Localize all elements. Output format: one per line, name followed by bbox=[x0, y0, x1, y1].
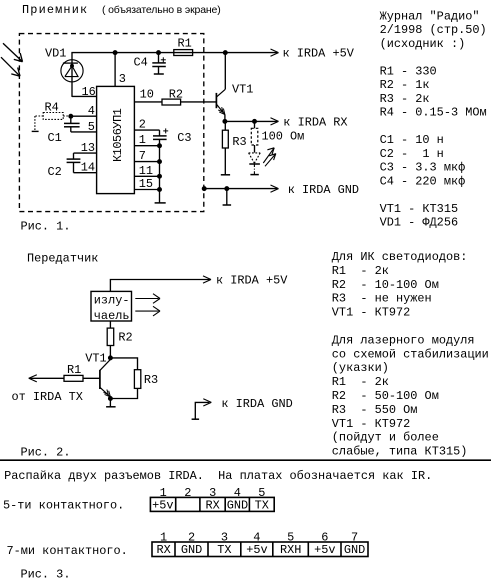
svg-text:чаель: чаель bbox=[94, 309, 130, 323]
svg-text:VD1 - ФД256: VD1 - ФД256 bbox=[380, 216, 459, 230]
svg-text:R1: R1 bbox=[178, 36, 192, 50]
5-pin connector table bbox=[150, 497, 274, 511]
svg-text:RX: RX bbox=[206, 498, 220, 512]
svg-text:1: 1 bbox=[139, 133, 146, 147]
wire: emitter to IRDA RX bbox=[225, 120, 277, 122]
svg-text:R3 - 2к: R3 - 2к bbox=[380, 92, 430, 106]
node: pin1 junction bbox=[158, 144, 162, 148]
resistor 100 Ом (dashed, optional) bbox=[251, 121, 304, 152]
photodiode VD1 bbox=[45, 46, 83, 97]
svg-text:Для ИК светодиодов:: Для ИК светодиодов: bbox=[332, 250, 468, 264]
svg-text:7: 7 bbox=[139, 149, 146, 163]
pin 13 bbox=[74, 141, 97, 155]
svg-text:+5v: +5v bbox=[152, 498, 173, 512]
7-pin labels bbox=[157, 543, 366, 557]
ground (bus) bbox=[223, 204, 232, 206]
wire: R3 bottom to emitter bbox=[110, 388, 137, 398]
svg-text:к IRDA +5V: к IRDA +5V bbox=[216, 274, 288, 288]
svg-text:Распайка двух разъемов IRDA.: Распайка двух разъемов IRDA. На платах о… bbox=[4, 469, 432, 483]
svg-text:C3 - 3.3 мкф: C3 - 3.3 мкф bbox=[380, 161, 466, 175]
node: pin11 junction bbox=[158, 175, 162, 179]
svg-text:слабые, типа КТ315): слабые, типа КТ315) bbox=[332, 445, 468, 459]
svg-text:7-ми контактного.: 7-ми контактного. bbox=[7, 544, 128, 558]
svg-text:C4 - 220 мкф: C4 - 220 мкф bbox=[380, 174, 466, 188]
svg-text:14: 14 bbox=[81, 161, 95, 175]
node: emitter junction (transmitter) bbox=[109, 397, 113, 401]
resistor R1 bbox=[174, 36, 193, 55]
arrow to IRDA +5V bbox=[271, 47, 355, 61]
7-pin numbers bbox=[160, 530, 358, 544]
pin 14 bbox=[74, 161, 97, 175]
svg-text:2/1998 (стр.50): 2/1998 (стр.50) bbox=[380, 23, 487, 37]
journal reference text block bbox=[380, 9, 487, 229]
svg-text:Рис. 1.: Рис. 1. bbox=[21, 219, 71, 233]
ground (IC bus) bbox=[155, 202, 166, 204]
svg-text:C2: C2 bbox=[48, 165, 62, 179]
svg-text:4: 4 bbox=[88, 104, 95, 118]
svg-text:к IRDA GND: к IRDA GND bbox=[221, 397, 292, 411]
svg-text:R3 - 550 Ом: R3 - 550 Ом bbox=[332, 403, 418, 417]
wire: collector to R3 bbox=[110, 358, 137, 370]
svg-text:100 Ом: 100 Ом bbox=[262, 130, 305, 144]
wire: +5V top rail bbox=[71, 52, 277, 54]
svg-text:16: 16 bbox=[82, 85, 96, 99]
svg-text:GND: GND bbox=[344, 543, 365, 557]
capacitor C1 bbox=[48, 116, 80, 145]
LED light output arrow 1 bbox=[263, 148, 274, 163]
capacitor C2 bbox=[48, 153, 81, 179]
svg-text:R3 - не нужен: R3 - не нужен bbox=[332, 292, 432, 306]
7-pin connector table bbox=[152, 542, 368, 557]
svg-text:3: 3 bbox=[119, 72, 126, 86]
svg-text:+5v: +5v bbox=[314, 543, 335, 557]
svg-text:(указки): (указки) bbox=[332, 361, 389, 375]
node: pin7 junction bbox=[158, 160, 162, 164]
node: shield junction bbox=[202, 187, 206, 191]
svg-text:R2 - 50-100 Ом: R2 - 50-100 Ом bbox=[332, 389, 439, 403]
capacitor C3 bbox=[153, 128, 192, 145]
svg-text:от IRDA TX: от IRDA TX bbox=[12, 390, 83, 404]
node: LED branch junction bbox=[253, 120, 257, 124]
node: C4 junction bbox=[157, 51, 161, 55]
svg-text:Для лазерного модуля: Для лазерного модуля bbox=[332, 333, 475, 347]
svg-text:VT1 - КТ315: VT1 - КТ315 bbox=[380, 202, 459, 216]
svg-text:Рис. 3.: Рис. 3. bbox=[21, 567, 71, 581]
svg-text:5-ти контактного.: 5-ти контактного. bbox=[3, 499, 124, 513]
svg-text:11: 11 bbox=[139, 164, 153, 178]
svg-text:2: 2 bbox=[139, 118, 146, 132]
svg-text:R1 - 330: R1 - 330 bbox=[380, 64, 437, 78]
pin 11 bbox=[134, 164, 159, 178]
node: pin3 junction bbox=[113, 51, 117, 55]
ground (transmitter GND symbol) bbox=[192, 418, 200, 420]
svg-text:К1056УП1: К1056УП1 bbox=[111, 108, 125, 162]
ground (transmitter emitter) bbox=[106, 406, 116, 408]
svg-text:13: 13 bbox=[81, 141, 95, 155]
svg-text:15: 15 bbox=[139, 177, 153, 191]
svg-text:VT1: VT1 bbox=[232, 83, 253, 97]
IR light input arrow 2 bbox=[1, 57, 20, 76]
svg-text:R4 - 0.15-3 МОм: R4 - 0.15-3 МОм bbox=[380, 106, 487, 120]
pin 2 bbox=[134, 118, 159, 132]
svg-text:VD1: VD1 bbox=[45, 46, 66, 60]
svg-text:Журнал "Радио": Журнал "Радио" bbox=[380, 9, 480, 23]
svg-text:VT1 - КТ972: VT1 - КТ972 bbox=[332, 417, 411, 431]
node: gnd stub junction bbox=[225, 187, 229, 191]
wire: ground bus of pins 1,7,11,15 bbox=[159, 139, 161, 203]
pin 3 bbox=[115, 53, 126, 87]
receiver shield dashed box bbox=[19, 34, 203, 212]
ground (C4) bbox=[154, 73, 164, 75]
pin 15 bbox=[134, 177, 159, 191]
LED indicator (dashed, optional) bbox=[249, 153, 261, 175]
svg-text:к IRDA +5V: к IRDA +5V bbox=[283, 47, 355, 61]
svg-text:R2: R2 bbox=[118, 330, 132, 344]
resistor R2 bbox=[162, 87, 216, 105]
svg-text:( объязательно в экране): ( объязательно в экране) bbox=[102, 4, 221, 16]
ground (LED) bbox=[250, 174, 258, 176]
pin 10 bbox=[134, 87, 162, 102]
svg-text:+5v: +5v bbox=[246, 543, 267, 557]
svg-text:C1: C1 bbox=[48, 131, 62, 145]
node: pin15 junction bbox=[158, 188, 162, 192]
svg-text:C1 - 10 н: C1 - 10 н bbox=[380, 133, 444, 147]
svg-text:TX: TX bbox=[255, 498, 269, 512]
svg-text:R3: R3 bbox=[144, 373, 158, 387]
resistor R4 (dotted) bbox=[35, 101, 71, 131]
svg-text:излу-: излу- bbox=[94, 293, 130, 307]
svg-text:R2 - 1к: R2 - 1к bbox=[380, 78, 430, 92]
LED light output arrow 2 bbox=[265, 154, 276, 167]
svg-text:2: 2 bbox=[184, 486, 191, 500]
resistor R3 bbox=[222, 121, 246, 174]
svg-text:C2 - 1 н: C2 - 1 н bbox=[380, 147, 444, 161]
wire: ground bus to IRDA GND bbox=[204, 188, 277, 190]
svg-text:(пойдут и более: (пойдут и более bbox=[332, 431, 439, 445]
svg-text:C3: C3 bbox=[177, 131, 191, 145]
svg-text:Приемник: Приемник bbox=[22, 3, 88, 17]
pin 4 bbox=[71, 104, 97, 118]
resistor R2 (transmitter) bbox=[107, 321, 132, 358]
5-pin labels bbox=[152, 498, 269, 512]
arrow to IRDA GND bbox=[271, 183, 360, 197]
transistor VT1 (transmitter) bbox=[85, 352, 110, 399]
svg-text:R2 - 10-100 Ом: R2 - 10-100 Ом bbox=[332, 278, 439, 292]
5-pin numbers bbox=[160, 486, 266, 500]
svg-text:TX: TX bbox=[217, 543, 231, 557]
pin 16 bbox=[72, 85, 97, 99]
arrow to IRDA +5V (transmitter) bbox=[203, 274, 288, 288]
ground (R3) bbox=[221, 174, 230, 176]
svg-text:со схемой стабилизации: со схемой стабилизации bbox=[332, 347, 489, 361]
light output arrow 1 (emitter box) bbox=[135, 294, 160, 304]
svg-text:GND: GND bbox=[227, 498, 248, 512]
svg-text:10: 10 bbox=[140, 87, 154, 101]
light output arrow 2 (emitter box) bbox=[135, 306, 160, 316]
svg-text:R3: R3 bbox=[232, 135, 246, 149]
wire: к IRDA GND (transmitter) bbox=[195, 402, 209, 419]
svg-text:VT1: VT1 bbox=[85, 352, 106, 366]
svg-text:R1 - 2к: R1 - 2к bbox=[332, 264, 389, 278]
transistor VT1 (receiver) bbox=[216, 53, 253, 122]
IR light input arrow 1 bbox=[3, 43, 23, 62]
svg-text:RX: RX bbox=[157, 543, 171, 557]
arrow to IRDA GND (transmitter) bbox=[203, 397, 292, 411]
LED options text block bbox=[332, 250, 489, 459]
resistor R1 (transmitter) bbox=[29, 363, 100, 381]
wire: emitter to ground bbox=[109, 399, 111, 407]
svg-text:C4: C4 bbox=[134, 56, 148, 70]
svg-text:Рис. 2.: Рис. 2. bbox=[21, 445, 71, 459]
node: collector junction (transmitter) bbox=[109, 356, 113, 360]
pin 5 bbox=[71, 120, 97, 134]
arrow from IRDA TX bbox=[12, 375, 83, 405]
pin 1 bbox=[134, 133, 159, 147]
node: emitter junction bbox=[223, 120, 227, 124]
svg-text:к IRDA RX: к IRDA RX bbox=[283, 115, 347, 129]
svg-text:RXH: RXH bbox=[280, 543, 301, 557]
svg-text:GND: GND bbox=[181, 543, 202, 557]
svg-text:(исходник :): (исходник :) bbox=[380, 37, 466, 51]
resistor R3 (transmitter) bbox=[134, 370, 158, 389]
arrow to IRDA RX bbox=[271, 115, 348, 129]
emitter module box (излучатель) bbox=[91, 291, 132, 323]
node: pin4/R4/C1 junction bbox=[69, 114, 73, 118]
svg-text:5: 5 bbox=[88, 120, 95, 134]
svg-text:VT1 - КТ972: VT1 - КТ972 bbox=[332, 306, 411, 320]
svg-text:к IRDA GND: к IRDA GND bbox=[288, 183, 359, 197]
wire: gnd stub bbox=[226, 189, 228, 205]
node: collector junction bbox=[224, 51, 228, 55]
svg-text:R1 - 2к: R1 - 2к bbox=[332, 375, 389, 389]
pin 7 bbox=[134, 149, 159, 163]
capacitor C4 bbox=[134, 53, 166, 74]
wire: emitter box to +5V bbox=[110, 280, 209, 292]
svg-text:Передатчик: Передатчик bbox=[27, 251, 98, 265]
separator line bbox=[0, 459, 491, 461]
ground (R4) bbox=[32, 130, 39, 132]
op-amp IC U1 К1056УП1 bbox=[97, 86, 135, 193]
